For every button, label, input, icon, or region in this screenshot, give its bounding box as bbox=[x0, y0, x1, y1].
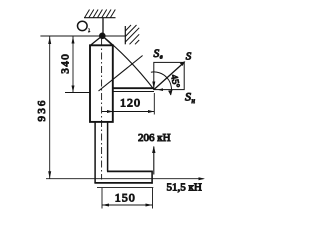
svg-text:206 кН: 206 кН bbox=[138, 132, 171, 144]
svg-text:150: 150 bbox=[115, 191, 136, 205]
svg-text:S: S bbox=[186, 51, 192, 63]
svg-text:120: 120 bbox=[120, 95, 141, 109]
svg-text:340: 340 bbox=[59, 53, 71, 74]
svg-text:51,5 кН: 51,5 кН bbox=[167, 182, 202, 194]
svg-text:936: 936 bbox=[36, 98, 48, 121]
